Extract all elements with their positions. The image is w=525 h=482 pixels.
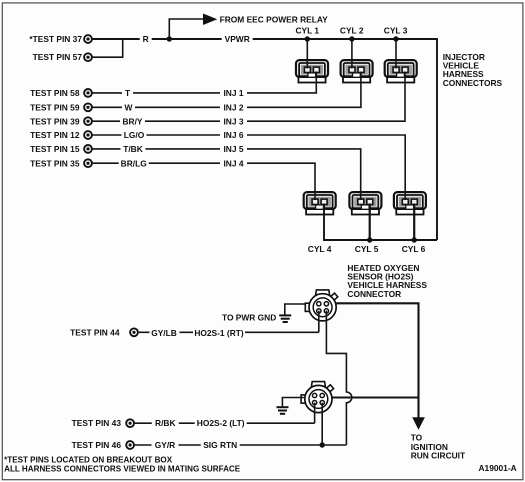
svg-text:TEST PIN 43: TEST PIN 43 <box>72 418 122 428</box>
svg-text:FROM EEC POWER RELAY: FROM EEC POWER RELAY <box>220 15 329 25</box>
svg-text:INJ 3: INJ 3 <box>223 116 243 126</box>
svg-text:ALL HARNESS CONNECTORS VIEWED: ALL HARNESS CONNECTORS VIEWED IN MATING … <box>4 465 241 474</box>
svg-text:TO PWR GND: TO PWR GND <box>222 312 276 322</box>
svg-text:TEST PIN 46: TEST PIN 46 <box>72 440 122 450</box>
svg-text:HO2S-1 (RT): HO2S-1 (RT) <box>194 328 244 338</box>
svg-text:GY/R: GY/R <box>155 440 175 450</box>
svg-text:CYL 3: CYL 3 <box>384 25 408 35</box>
svg-text:TEST PIN 12: TEST PIN 12 <box>30 130 80 140</box>
svg-text:CONNECTOR: CONNECTOR <box>347 289 401 299</box>
svg-text:CYL 1: CYL 1 <box>296 25 320 35</box>
svg-text:TEST PIN 57: TEST PIN 57 <box>33 52 83 62</box>
svg-text:*TEST PINS LOCATED ON BREAKOUT: *TEST PINS LOCATED ON BREAKOUT BOX <box>4 455 173 464</box>
svg-text:*TEST PIN 37: *TEST PIN 37 <box>29 34 82 44</box>
svg-text:BR/LG: BR/LG <box>121 158 147 168</box>
svg-text:INJ 2: INJ 2 <box>223 102 243 112</box>
svg-text:W: W <box>125 102 133 112</box>
svg-text:CYL 2: CYL 2 <box>340 25 364 35</box>
svg-text:CONNECTORS: CONNECTORS <box>443 78 503 88</box>
svg-text:T/BK: T/BK <box>123 144 143 154</box>
svg-text:RUN CIRCUIT: RUN CIRCUIT <box>411 450 466 460</box>
svg-text:GY/LB: GY/LB <box>151 328 177 338</box>
svg-text:INJ 6: INJ 6 <box>223 130 243 140</box>
svg-text:INJ 5: INJ 5 <box>223 144 243 154</box>
svg-text:LG/O: LG/O <box>124 130 145 140</box>
svg-text:R/BK: R/BK <box>155 418 175 428</box>
svg-text:CYL 4: CYL 4 <box>308 244 332 254</box>
svg-text:CYL 6: CYL 6 <box>402 244 426 254</box>
svg-text:VPWR: VPWR <box>225 34 250 44</box>
svg-text:CYL 5: CYL 5 <box>355 244 379 254</box>
svg-text:A19001-A: A19001-A <box>479 463 517 473</box>
svg-text:T: T <box>125 88 131 98</box>
svg-text:TEST PIN 44: TEST PIN 44 <box>70 328 120 338</box>
svg-text:BR/Y: BR/Y <box>122 116 142 126</box>
svg-text:SIG RTN: SIG RTN <box>203 440 237 450</box>
svg-text:TEST PIN 15: TEST PIN 15 <box>30 144 80 154</box>
svg-text:INJ 4: INJ 4 <box>223 158 243 168</box>
svg-text:TEST PIN 58: TEST PIN 58 <box>30 88 80 98</box>
svg-text:TEST PIN 39: TEST PIN 39 <box>30 116 80 126</box>
svg-text:TEST PIN 59: TEST PIN 59 <box>30 102 80 112</box>
svg-text:HO2S-2 (LT): HO2S-2 (LT) <box>197 418 245 428</box>
svg-text:R: R <box>143 34 149 44</box>
svg-text:TEST PIN 35: TEST PIN 35 <box>30 158 80 168</box>
svg-text:INJ 1: INJ 1 <box>223 88 243 98</box>
